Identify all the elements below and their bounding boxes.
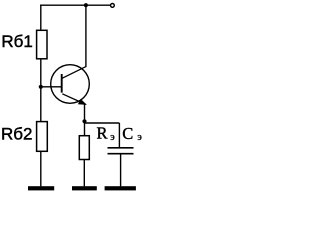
capacitor Ce bottom plate <box>108 153 134 155</box>
wire: capacitor to ground <box>120 154 122 186</box>
svg-text:R: R <box>97 124 108 143</box>
svg-text:э: э <box>110 132 115 143</box>
ground middle <box>72 186 97 190</box>
wire: resistor Re to ground <box>83 160 85 187</box>
svg-text:C: C <box>122 124 133 143</box>
node: junction dot top (collector tap) <box>84 3 88 7</box>
transistor Q1 collector diagonal <box>62 66 86 78</box>
wire: left rail bottom segment <box>40 151 42 186</box>
wire: top horizontal rail <box>40 4 110 6</box>
transistor Q1 base bar <box>61 74 63 93</box>
wire: emitter vertical <box>84 104 86 135</box>
svg-text:Rб2: Rб2 <box>1 125 32 144</box>
svg-text:Rб1: Rб1 <box>1 32 32 51</box>
node: base junction dot <box>39 85 43 89</box>
wire: capacitor branch vertical upper <box>118 123 120 147</box>
wire: base wire horizontal <box>41 86 62 88</box>
node: output terminal (open circle) <box>111 4 115 8</box>
wire: left rail middle segment <box>40 59 42 122</box>
svg-text:э: э <box>137 132 142 143</box>
wire: collector vertical <box>85 5 87 67</box>
transistor Q1 emitter diagonal <box>62 94 85 105</box>
node: emitter junction dot <box>82 119 86 123</box>
wire: horizontal to capacitor branch <box>85 122 120 124</box>
resistor R61 body <box>37 30 47 59</box>
transistor Q1 emitter arrow <box>78 99 87 105</box>
wire: left rail top segment <box>40 5 42 31</box>
ground right <box>105 186 136 190</box>
capacitor Ce top plate <box>108 147 134 149</box>
resistor Re body <box>79 136 89 160</box>
ground left <box>28 186 54 190</box>
resistor R62 body <box>37 122 48 152</box>
transistor Q1 circle <box>51 65 90 104</box>
